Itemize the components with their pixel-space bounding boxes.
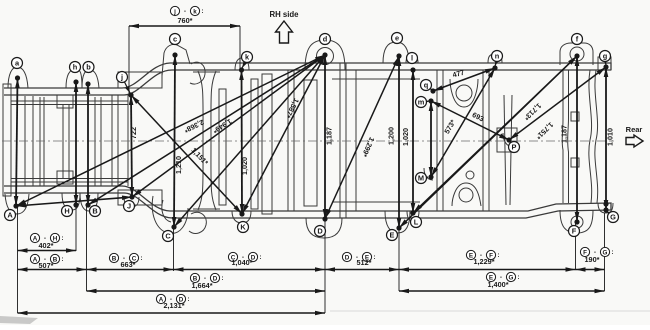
svg-text::: :: [140, 255, 142, 262]
svg-text:m: m: [418, 98, 425, 107]
svg-text:c: c: [173, 35, 177, 44]
svg-text:1,187: 1,187: [560, 125, 569, 143]
svg-text::: :: [187, 296, 189, 303]
svg-text:-: -: [184, 8, 186, 15]
svg-text:A: A: [33, 256, 38, 263]
svg-text:J: J: [127, 202, 131, 211]
svg-text:G: G: [603, 249, 608, 256]
svg-text:1,229*: 1,229*: [473, 257, 494, 266]
svg-text:E: E: [390, 231, 395, 240]
svg-text:j: j: [120, 73, 123, 82]
svg-text:1,664*: 1,664*: [191, 281, 212, 290]
svg-text::: :: [373, 254, 375, 261]
svg-text:512*: 512*: [356, 258, 371, 267]
svg-text:D: D: [317, 227, 323, 236]
svg-text:507*: 507*: [38, 261, 53, 270]
svg-text:e: e: [395, 34, 399, 43]
svg-text::: :: [61, 256, 63, 263]
svg-text:722: 722: [129, 127, 138, 139]
svg-text:760*: 760*: [177, 16, 192, 25]
svg-text::: :: [611, 249, 613, 256]
svg-text:B: B: [112, 255, 117, 262]
svg-text:b: b: [86, 63, 91, 72]
svg-text:P: P: [512, 143, 517, 152]
svg-text:G: G: [509, 274, 514, 281]
svg-text:D: D: [345, 254, 350, 261]
svg-text:F: F: [572, 227, 577, 236]
svg-text:d: d: [323, 35, 328, 44]
svg-text:h: h: [73, 63, 78, 72]
svg-text:1,210: 1,210: [174, 156, 183, 174]
svg-text:l: l: [411, 54, 413, 63]
svg-text:n: n: [495, 52, 500, 61]
svg-text:q: q: [424, 81, 429, 90]
svg-text::: :: [259, 254, 261, 261]
svg-text::: :: [497, 252, 499, 259]
svg-text:Rear: Rear: [626, 125, 643, 134]
svg-text:B: B: [92, 207, 97, 216]
svg-text:j: j: [173, 8, 176, 15]
svg-text:1,020: 1,020: [401, 128, 410, 146]
svg-text:D: D: [213, 275, 218, 282]
svg-text:A: A: [33, 235, 38, 242]
svg-text:2,131*: 2,131*: [163, 301, 184, 310]
svg-text:663*: 663*: [120, 260, 135, 269]
svg-text:1,020: 1,020: [240, 157, 249, 175]
svg-text::: :: [61, 235, 63, 242]
svg-text:H: H: [64, 207, 69, 216]
svg-text:g: g: [603, 52, 608, 61]
svg-text:1,187: 1,187: [325, 127, 334, 145]
svg-text:1,400*: 1,400*: [487, 280, 508, 289]
svg-text:L: L: [414, 218, 419, 227]
svg-text:1,040*: 1,040*: [231, 258, 252, 267]
svg-text:1,200: 1,200: [387, 127, 396, 145]
svg-text:1,010: 1,010: [606, 128, 615, 146]
svg-text:C: C: [165, 232, 171, 241]
svg-text::: :: [201, 8, 203, 15]
svg-text:G: G: [610, 213, 616, 222]
svg-text:402*: 402*: [38, 241, 53, 250]
svg-text:K: K: [240, 223, 246, 232]
svg-text:k: k: [193, 8, 197, 15]
svg-text:M: M: [418, 174, 424, 183]
svg-text:RH side: RH side: [269, 10, 299, 19]
svg-text::: :: [221, 275, 223, 282]
svg-text:190*: 190*: [584, 255, 599, 264]
svg-text:A: A: [7, 211, 13, 220]
svg-text::: :: [517, 274, 519, 281]
